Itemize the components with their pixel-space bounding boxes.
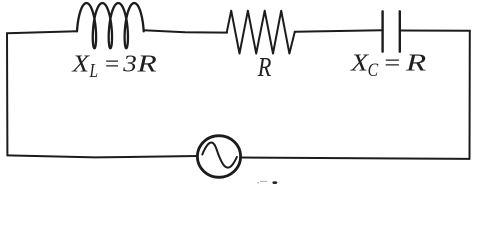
wire coil to resistor xyxy=(144,30,227,32)
wire right vertical xyxy=(469,31,471,159)
capacitor C right plate xyxy=(399,11,401,51)
resistor R zigzag xyxy=(227,11,295,54)
svg-text:3: 3 xyxy=(122,50,137,77)
inductor L (X_L = 3R coil) xyxy=(77,3,144,48)
svg-text:R: R xyxy=(405,50,427,77)
label XL = 3R xyxy=(71,50,156,82)
wire bottom-left segment xyxy=(7,155,197,157)
svg-text:L: L xyxy=(89,59,98,81)
wire left vertical xyxy=(6,33,8,155)
svg-text:C: C xyxy=(368,59,379,81)
svg-text:R: R xyxy=(136,51,156,77)
stray mark: dark blob xyxy=(272,181,277,184)
svg-text:=: = xyxy=(103,51,120,77)
wire resistor to capacitor xyxy=(295,30,382,32)
svg-text:R: R xyxy=(257,53,272,82)
stray mark: faint dash xyxy=(260,181,267,182)
stray mark: faint dot xyxy=(258,182,259,183)
AC source circle xyxy=(197,136,240,178)
wire capacitor to top-right corner xyxy=(400,30,470,32)
wire top-left segment xyxy=(7,31,77,33)
svg-text:X: X xyxy=(350,50,369,77)
capacitor C left plate xyxy=(381,11,383,51)
svg-text:X: X xyxy=(71,50,90,77)
label XC = R xyxy=(350,50,427,81)
svg-text:=: = xyxy=(383,50,402,77)
wire bottom-right segment xyxy=(241,158,470,159)
AC source sine wave xyxy=(202,143,237,168)
